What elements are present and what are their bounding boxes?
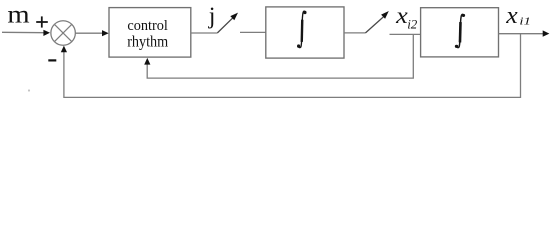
integral glyph 1 [297, 11, 307, 48]
svg-text:i1: i1 [519, 16, 531, 28]
svg-text:j: j [208, 3, 216, 29]
X cross inside summing junction [55, 24, 72, 41]
wire integrator 1 to sampler 2 [344, 32, 366, 34]
sampler switch arrow 1 [217, 18, 233, 33]
wire control block to sampler j [191, 32, 218, 34]
block control rhythm [109, 8, 191, 58]
wire outer feedback from x_i1 to summing junction [64, 34, 521, 98]
svg-text:rhythm: rhythm [127, 34, 169, 51]
wire sampler to integrator 1 [240, 31, 266, 33]
svg-text:x: x [505, 3, 518, 29]
svg-text:control: control [127, 17, 167, 34]
integrator block U2 [421, 8, 499, 57]
svg-text:m: m [7, 0, 29, 28]
node m input label [7, 0, 29, 28]
sampler switch arrow 2 [366, 17, 384, 33]
plus sign at summing junction [36, 16, 48, 27]
wire inner feedback from x_i2 node to control block [147, 34, 413, 78]
wire x_i2 to integrator 2 [390, 33, 421, 35]
integral glyph 2 [455, 14, 465, 48]
wire input arrow into summing junction [2, 31, 45, 33]
svg-text:i2: i2 [407, 17, 418, 32]
minus sign at summing junction [48, 59, 56, 61]
wire summing junction to control block [75, 32, 102, 34]
integrator block U1 [266, 7, 344, 58]
wire output with arrow [499, 33, 544, 35]
summing junction circle [51, 21, 76, 46]
